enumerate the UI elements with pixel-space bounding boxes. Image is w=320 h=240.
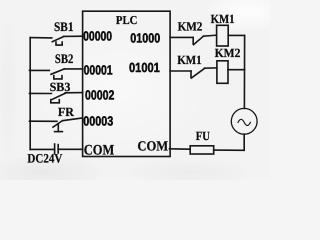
svg-text:01001: 01001: [129, 60, 160, 75]
wire output row2 from box: [170, 70, 191, 72]
pushbutton SB1 actuator: [56, 42, 62, 45]
coil KM1: [217, 25, 229, 46]
battery GB plate right: [57, 145, 59, 153]
svg-text:00000: 00000: [83, 29, 112, 44]
wire coil KM2 to bus: [228, 69, 245, 71]
pushbutton SB2 contact blade: [51, 69, 64, 74]
wire SB3 left lead: [30, 92, 52, 94]
contact KM2 NC blade: [194, 36, 204, 44]
svg-text:KM1: KM1: [177, 53, 202, 67]
svg-text:FU: FU: [196, 129, 210, 143]
svg-text:DC24V: DC24V: [27, 151, 63, 165]
AC sine symbol: [238, 119, 250, 125]
contact KM1 NC blade: [191, 68, 204, 78]
PLC box U1: [83, 11, 171, 156]
wire SB1 left lead: [30, 37, 52, 39]
svg-text:SB3: SB3: [50, 80, 71, 94]
svg-text:COM: COM: [137, 140, 168, 155]
svg-text:01000: 01000: [130, 31, 160, 46]
wire battery row left: [30, 148, 54, 150]
thermal contact FR actuator bar: [55, 131, 63, 133]
svg-text:COM: COM: [84, 143, 115, 159]
svg-text:00003: 00003: [83, 113, 113, 128]
wire FR left lead: [30, 120, 57, 122]
svg-text:KM2: KM2: [215, 46, 241, 60]
wire AC source bottom: [214, 134, 245, 150]
pushbutton SB3 contact blade: [52, 93, 65, 99]
pushbutton SB1 contact blade: [52, 37, 63, 42]
svg-text:SB2: SB2: [55, 51, 74, 66]
svg-text:SB1: SB1: [54, 19, 74, 34]
thermal contact FR blade: [53, 121, 62, 127]
right bus wire: [243, 35, 245, 108]
left bus wire: [29, 38, 31, 150]
contact KM2 NC bar: [192, 37, 194, 44]
AC source G: [231, 108, 257, 134]
svg-text:00002: 00002: [85, 88, 114, 103]
wire SB3 right lead: [65, 92, 82, 94]
contact KM1 NC bar: [190, 71, 192, 78]
wire fuse to COM: [170, 148, 191, 150]
wire battery row right to COM: [58, 148, 82, 150]
scan background: [0, 0, 270, 180]
wire row2 to coil: [205, 67, 217, 69]
wire output row1 from box: [170, 36, 193, 38]
svg-text:PLC: PLC: [116, 13, 137, 27]
svg-text:00001: 00001: [84, 63, 113, 78]
battery GB plate left: [54, 144, 56, 154]
wire FR right lead: [62, 118, 82, 121]
coil KM2: [217, 61, 228, 84]
wire SB2 right lead: [64, 68, 82, 70]
svg-text:KM1: KM1: [211, 12, 235, 26]
pushbutton SB3 actuator: [51, 100, 60, 103]
pushbutton SB2 actuator: [54, 76, 62, 79]
wire SB2 left lead: [30, 69, 50, 71]
svg-text:KM2: KM2: [178, 20, 203, 34]
fuse FU: [190, 146, 214, 154]
thermal contact FR actuator stem: [57, 125, 59, 132]
wire coil KM1 to bus: [228, 34, 244, 36]
wire SB1 right lead: [64, 35, 83, 37]
wire row1 to coil: [203, 35, 216, 36]
svg-text:FR: FR: [58, 105, 75, 119]
